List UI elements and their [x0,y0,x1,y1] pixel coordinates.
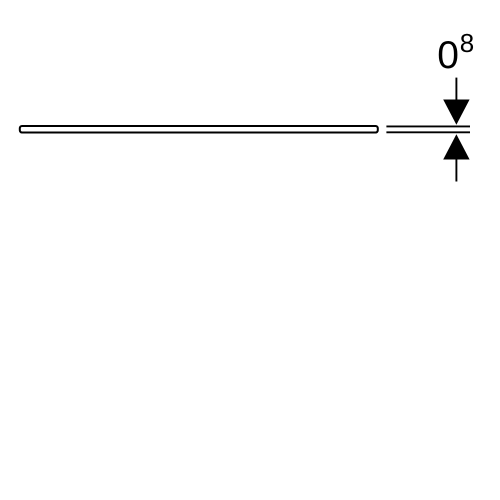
arrowhead down [443,100,469,125]
svg-text:8: 8 [460,28,474,58]
plate (side view, thin panel) [20,126,378,133]
dimension leader line lower [455,158,457,182]
dimension leader line upper [455,78,457,101]
svg-text:0: 0 [437,34,459,77]
arrowhead up [443,134,469,159]
dimension extension line bottom [386,131,470,133]
dimension extension line top [386,125,470,127]
